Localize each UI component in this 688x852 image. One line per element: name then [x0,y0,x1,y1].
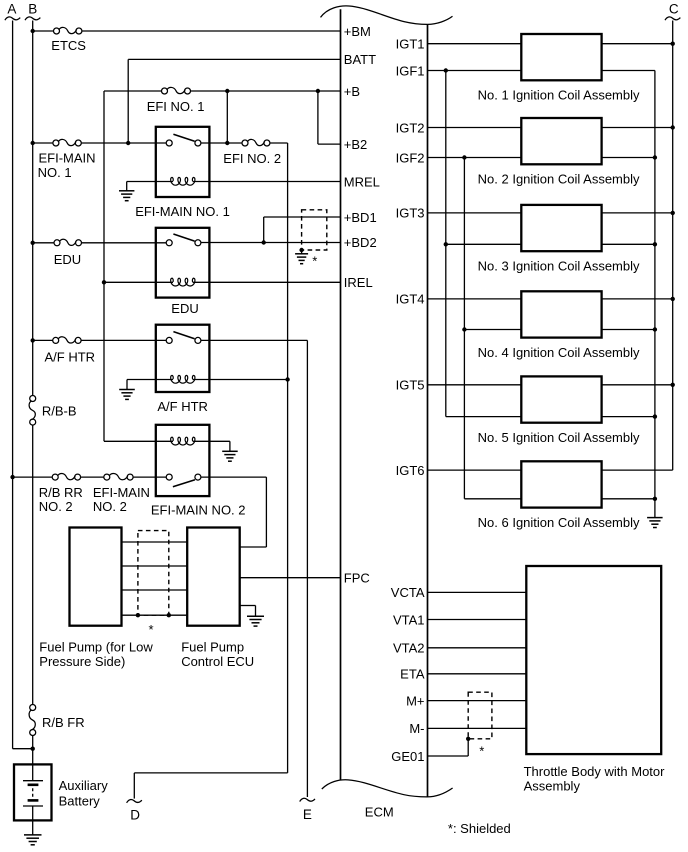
wire coil 6 ground side [602,498,655,500]
svg-text:C: C [669,2,679,17]
wire B vertical lower [32,735,34,764]
ignition coil box 5 [521,376,601,422]
wire coil 4 IGF [464,329,521,331]
svg-text:EFI-MAIN: EFI-MAIN [93,485,150,500]
svg-text:M-: M- [409,721,424,736]
switch arm EFI-MAIN NO.1 [173,134,194,141]
svg-text:*: * [312,254,317,269]
svg-text:+BM: +BM [344,24,371,39]
wire between fuses [81,476,104,478]
svg-text:NO. 2: NO. 2 [39,499,73,514]
wire M+ [428,700,527,702]
svg-text:*: * [149,622,154,637]
svg-text:*: Shielded: *: Shielded [448,821,511,836]
wire coil 6 IGF [464,498,521,500]
svg-text:No. 5 Ignition Coil Assembly: No. 5 Ignition Coil Assembly [478,430,640,445]
wire M- [428,727,527,729]
svg-text:EDU: EDU [54,252,81,267]
wire IGT3 [428,212,522,214]
svg-text:R/B FR: R/B FR [42,715,85,730]
wire A vertical [12,21,14,749]
svg-text:+B2: +B2 [344,137,368,152]
ignition coil box 3 [521,205,601,251]
svg-text:IGF1: IGF1 [396,63,425,78]
relay EDU [156,228,210,298]
wire IGT2 [428,127,522,129]
wire pump-ECU 3 [122,589,188,591]
ECM bottom wave [322,780,453,797]
svg-text:A/F HTR: A/F HTR [157,399,208,414]
svg-text:Auxiliary: Auxiliary [59,778,109,793]
svg-text:B: B [28,2,37,17]
wire relay output to FP ECU [201,476,267,478]
wire ground bus [654,71,656,518]
fuse EFI-MAIN NO. 1 [53,140,59,146]
svg-text:Fuel Pump: Fuel Pump [181,639,244,654]
wire coil 6 +B [602,469,673,471]
wire coil 4 ground side [602,329,655,331]
junction IREL riser [102,280,106,284]
junction +B line left [225,89,229,93]
svg-text:+BD1: +BD1 [344,210,377,225]
wire B to A/F HTR fuse [33,339,53,341]
svg-text:ETCS: ETCS [51,38,86,53]
svg-text:R/B RR: R/B RR [39,485,83,500]
switch arm EDU [173,234,194,241]
junction shield right [167,613,171,617]
relay EFI-MAIN NO. 2 [156,425,210,496]
junction battery [31,747,35,751]
wire IGT6 [428,469,522,471]
ground shield +BD [301,250,303,254]
svg-text:R/B-B: R/B-B [42,403,77,418]
junction shield left [136,613,140,617]
junction B A/F HTR [31,338,35,342]
wire coil 1 ground side [602,70,655,72]
junction +B line right [316,89,320,93]
ground A/F HTR coil [126,380,128,390]
switch arm EFI-MAIN NO.2 [173,480,195,487]
ignition coil box 4 [521,291,601,337]
svg-text:FPC: FPC [344,571,370,586]
fuel pump control ECU box [187,528,240,626]
svg-text:NO. 1: NO. 1 [38,165,72,180]
ground EFI-MAIN NO.1 coil [126,182,128,191]
svg-text:IGT4: IGT4 [396,292,425,307]
ECM top wave [321,6,453,24]
wire VTA1 [428,619,527,621]
wire coil 1 IGF [428,70,522,72]
svg-text:No. 3 Ignition Coil Assembly: No. 3 Ignition Coil Assembly [478,259,640,274]
fuse R/B RR NO. 2 [52,474,58,480]
junction BATT tap [126,141,130,145]
svg-text:MREL: MREL [344,174,380,189]
wire B to EFI-MAIN NO.1 fuse [33,142,53,144]
wire coil 1 +B [602,43,673,45]
junction B ETCS [31,29,35,33]
wire coil 2 ground side [602,157,655,159]
wire VTA2 [428,647,527,649]
shield box throttle [468,692,492,739]
wire coil 5 ground side [602,416,655,418]
svg-text:ETA: ETA [400,667,425,682]
wire A to R/B RR fuse [13,476,53,478]
wire coil 3 IGF [446,243,522,245]
wire coil 2 +B [602,127,673,129]
wire fuse to relay A/F HTR [81,339,166,341]
wire D riser [287,143,289,773]
svg-text:No. 1 Ignition Coil Assembly: No. 1 Ignition Coil Assembly [478,88,640,103]
wire IREL riser [103,91,105,441]
ignition coil box 1 [521,34,601,80]
ground ignition coils [647,517,663,519]
wire MREL [209,181,340,183]
svg-text:EFI-MAIN NO. 2: EFI-MAIN NO. 2 [151,502,246,517]
junction GE01 shield [466,737,470,741]
fuse EDU [54,240,60,246]
svg-text:EDU: EDU [171,301,198,316]
svg-text:EFI NO. 2: EFI NO. 2 [223,151,281,166]
wire B to EDU fuse [33,242,54,244]
junction D riser AF coil [285,377,289,381]
ECM left edge [340,9,342,780]
fuse ETCS [54,28,60,34]
wire IGT4 [428,298,522,300]
wire relay output to EFI NO.2 [201,142,242,144]
node E [300,798,315,801]
wire ETA [428,673,527,675]
wire D riser to D [134,772,287,774]
wire B to ETCS fuse [33,30,54,32]
junction B EDU [31,241,35,245]
svg-text:*: * [479,744,484,759]
junction +BD1 tap [262,240,266,244]
wire +B2 drop [317,91,319,144]
wire EFI NO.2 to D riser [270,142,288,144]
fusible link R/B-B [30,396,36,402]
svg-text:IGT1: IGT1 [396,37,425,52]
wire ETCS to ECM +BM [82,30,341,32]
wire A to battery junction [13,748,33,750]
wire fuse to relay EFI-MAIN NO.2 [133,476,166,478]
wire pump-ECU 2 [122,565,188,567]
wire FPC [240,577,341,579]
throttle body box [526,566,661,754]
svg-text:VCTA: VCTA [391,585,425,600]
svg-text:VTA2: VTA2 [393,641,425,656]
svg-text:D: D [130,807,140,822]
wire B vertical middle [32,425,34,705]
svg-text:Fuel Pump (for Low: Fuel Pump (for Low [39,639,153,654]
wire +BD1 [263,217,265,243]
junction shield ground [299,248,303,252]
junction A tap [10,475,14,479]
svg-text:M+: M+ [406,693,424,708]
wire coil 2 IGF [428,157,522,159]
wire coil 3 +B [602,212,673,214]
fuel pump box [70,528,122,626]
svg-text:IGT5: IGT5 [396,378,425,393]
shield box +BD [302,210,327,250]
wire GE01 [428,755,469,757]
svg-text:VTA1: VTA1 [393,612,425,627]
wire coil 3 ground side [602,243,655,245]
wire BATT [128,58,340,60]
wire fuse to relay EFI-MAIN NO.1 [81,142,166,144]
wire B vertical upper [32,21,34,396]
wire coil 4 +B [602,298,673,300]
svg-text:IGF2: IGF2 [396,150,425,165]
ECM right edge [427,24,429,797]
svg-text:EFI-MAIN: EFI-MAIN [39,151,96,166]
junction relay output [225,141,229,145]
coil A/F HTR [127,379,173,381]
wire IREL [209,281,340,283]
coil EFI-MAIN NO.2 [104,440,173,442]
wire EFI NO.1 to ECM +B [190,90,340,92]
svg-text:NO. 2: NO. 2 [93,499,127,514]
wire VCTA [428,591,527,593]
wire pump-ECU 1 [122,541,188,543]
wire pump-ECU 4 [122,614,188,616]
switch arm A/F HTR [173,332,194,339]
fuse A/F HTR [53,337,59,343]
ignition coil box 6 [521,461,601,507]
battery Auxiliary Battery [14,764,52,820]
shield box fuel pump [138,531,169,616]
wire IGT1 [428,43,522,45]
relay EFI-MAIN NO. 1 [156,127,210,197]
wire riser to EFI NO.1 fuse [104,90,162,92]
wire IGF2 bus [463,158,465,499]
fuse EFI NO. 1 [162,88,168,94]
svg-text:GE01: GE01 [391,749,424,764]
svg-text:IREL: IREL [344,275,373,290]
ignition coil box 2 [521,118,601,164]
svg-text:IGT2: IGT2 [396,120,425,135]
wire IGT5 [428,384,522,386]
svg-text:Assembly: Assembly [524,778,581,793]
ground EFI-MAIN NO.2 coil [229,441,231,451]
ground battery [24,834,42,836]
coil EFI-MAIN NO.1 [127,181,173,183]
svg-text:Pressure Side): Pressure Side) [39,654,125,669]
svg-text:IGT6: IGT6 [396,463,425,478]
svg-text:No. 6 Ignition Coil Assembly: No. 6 Ignition Coil Assembly [478,515,640,530]
junction B EFI-MAIN NO.1 [31,141,35,145]
svg-text:No. 2 Ignition Coil Assembly: No. 2 Ignition Coil Assembly [478,172,640,187]
svg-text:ECM: ECM [365,805,394,820]
fuse EFI-MAIN NO. 2 [104,474,110,480]
wire A/F HTR output to E riser [201,339,308,341]
svg-text:A: A [7,2,16,17]
svg-text:Throttle Body with Motor: Throttle Body with Motor [524,764,666,779]
svg-text:Control ECU: Control ECU [181,654,254,669]
relay A/F HTR [156,325,210,392]
svg-text:+BD2: +BD2 [344,235,377,250]
fuse EFI NO. 2 [242,140,248,146]
svg-text:EFI NO. 1: EFI NO. 1 [147,99,205,114]
svg-text:E: E [303,807,312,822]
svg-text:EFI-MAIN NO. 1: EFI-MAIN NO. 1 [135,204,230,219]
wire E riser [306,340,308,797]
svg-text:No. 4 Ignition Coil Assembly: No. 4 Ignition Coil Assembly [478,345,640,360]
fusible link R/B FR [30,705,36,711]
wire +BD2 [201,242,341,244]
wire IGF1 bus [445,71,447,417]
svg-text:A/F HTR: A/F HTR [45,350,96,365]
svg-text:IGT3: IGT3 [396,206,425,221]
wire coil 5 IGF [446,416,522,418]
svg-text:Battery: Battery [59,793,101,808]
coil EDU [104,281,173,283]
wire coil 5 +B [602,384,673,386]
svg-text:BATT: BATT [344,52,376,67]
wire C bus [672,21,674,471]
ground FP ECU [240,605,256,607]
node D [127,799,142,802]
wire EDU fuse to relay [81,242,166,244]
battery plates [32,764,34,780]
svg-text:+B: +B [344,84,360,99]
